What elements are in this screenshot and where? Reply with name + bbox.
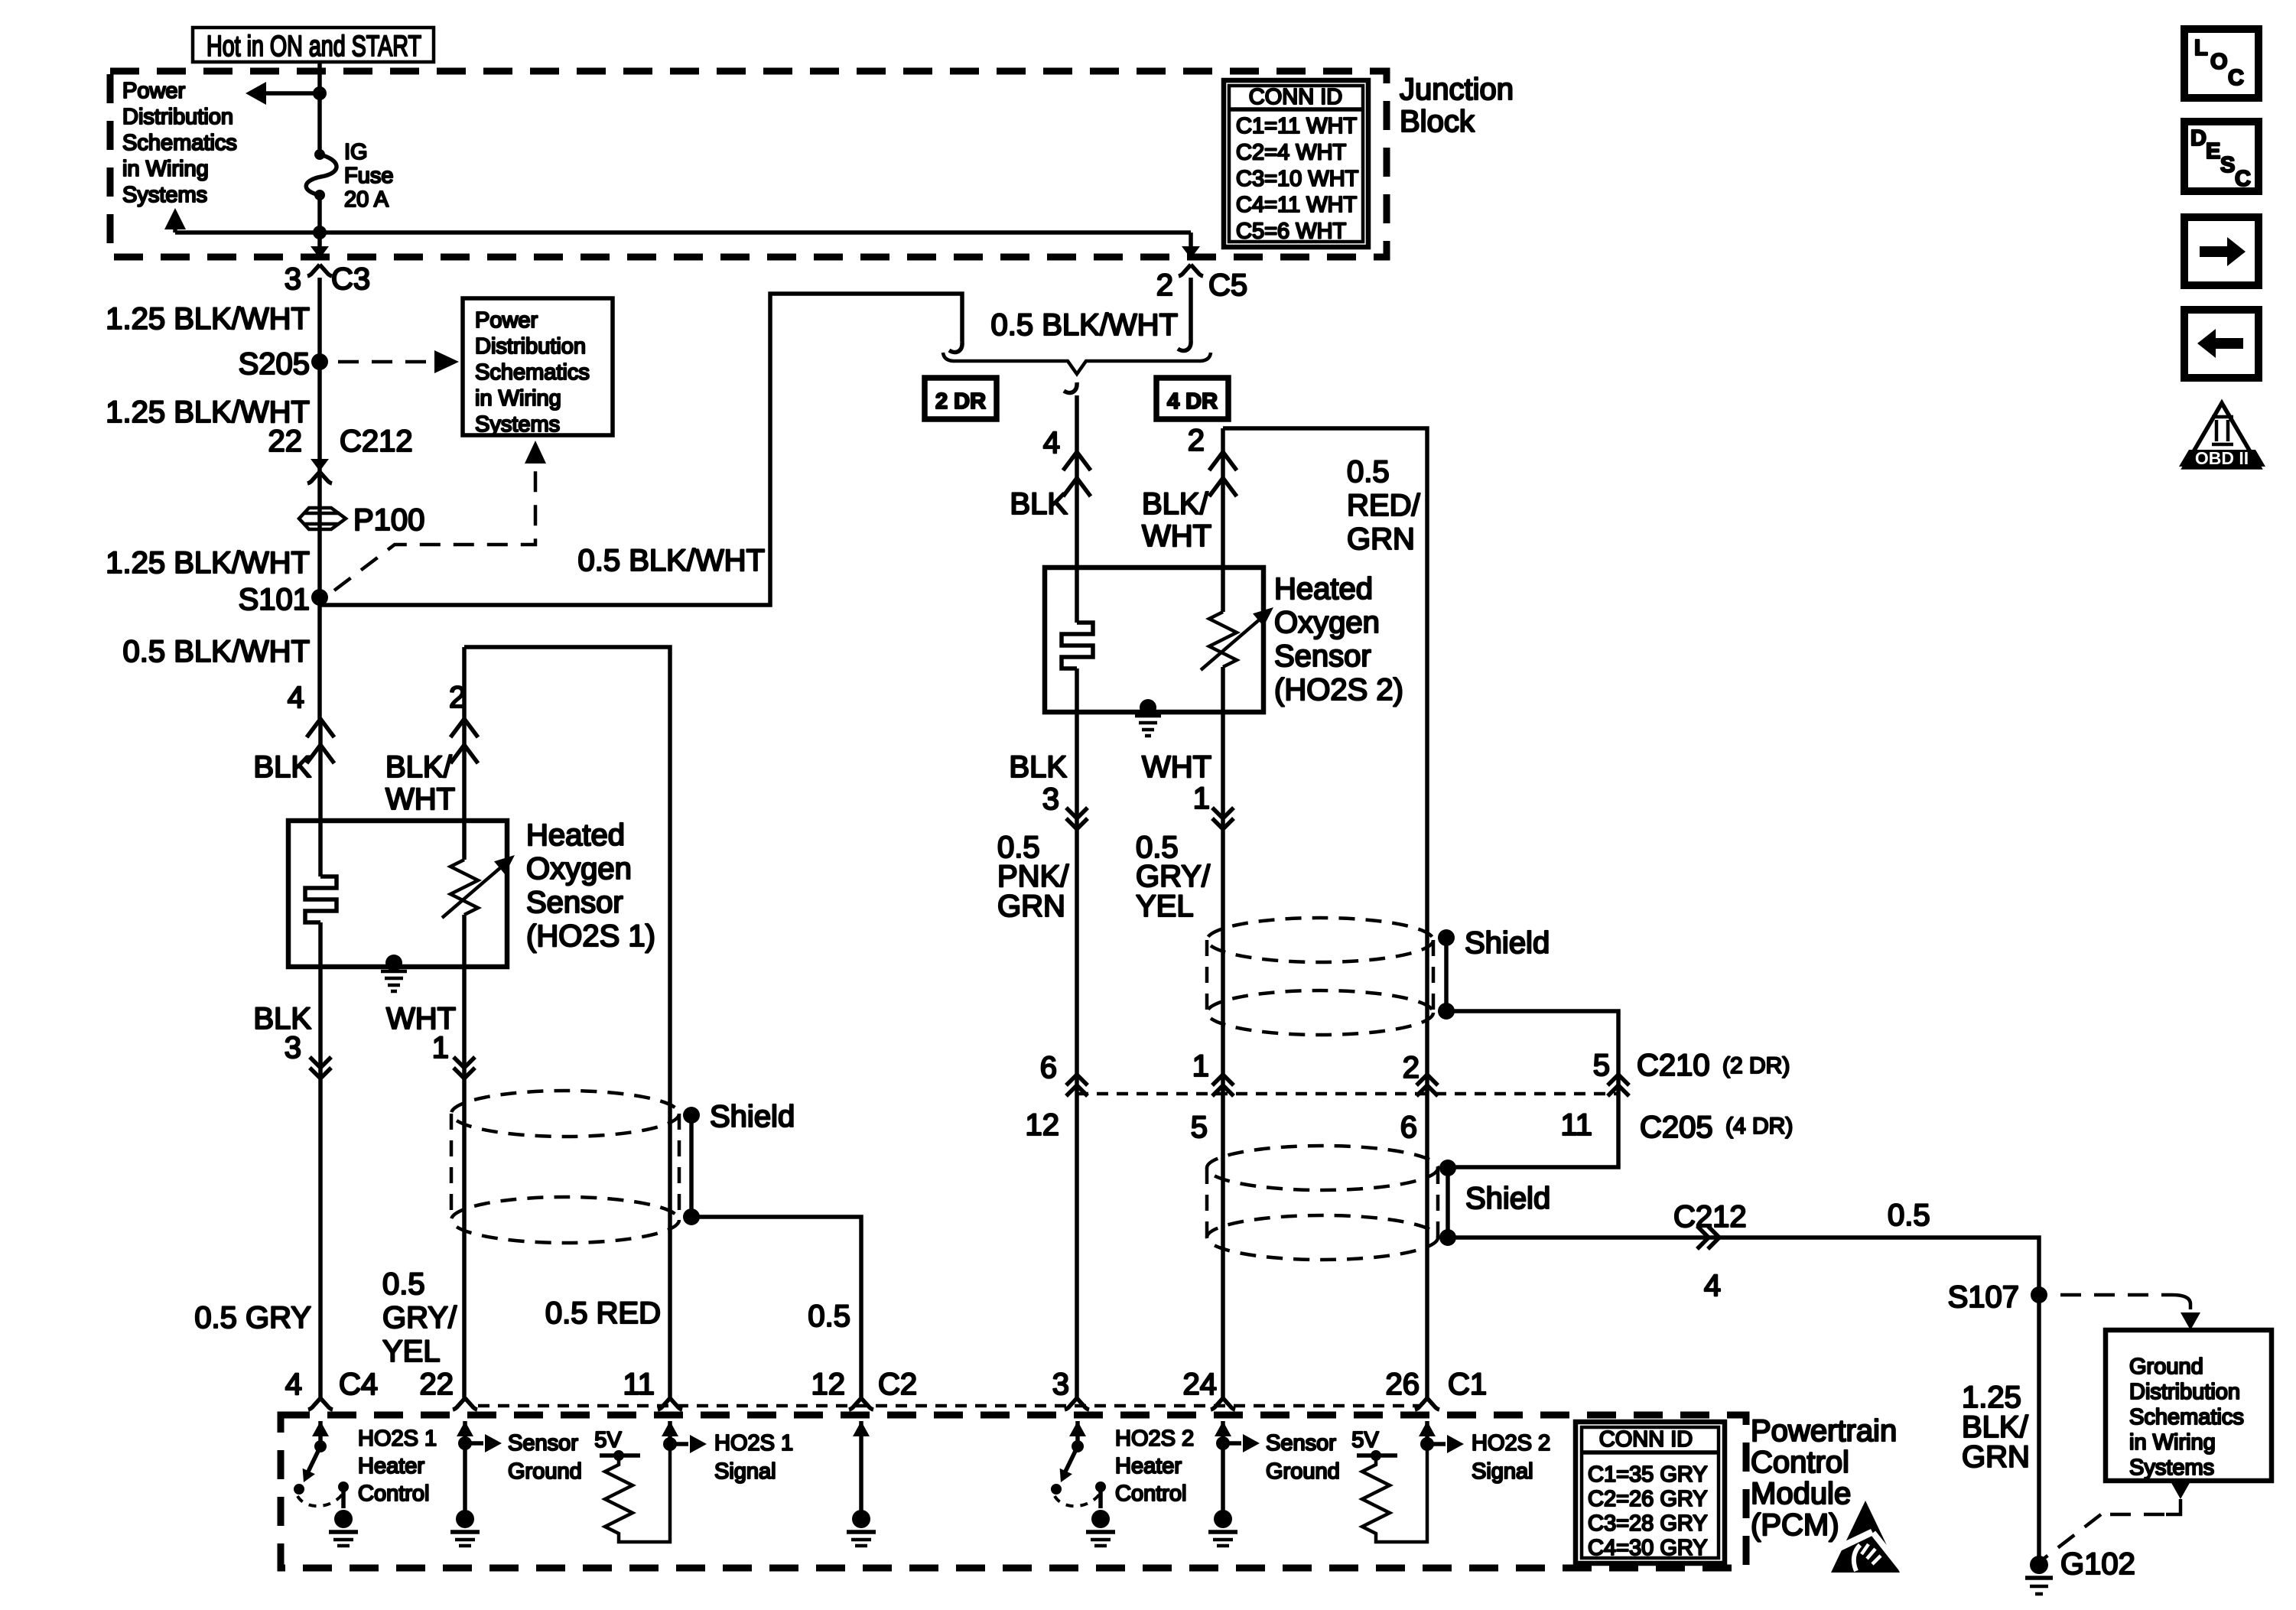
svg-text:Schematics: Schematics (475, 360, 590, 385)
shield drain wire to PCM pin 12 (691, 1217, 861, 1398)
svg-text:Distribution: Distribution (2129, 1380, 2240, 1404)
svg-text:BLK: BLK (253, 1002, 311, 1036)
svg-text:C2: C2 (878, 1368, 917, 1401)
svg-text:Block: Block (1400, 105, 1475, 138)
svg-text:Sensor: Sensor (508, 1431, 578, 1456)
svg-text:L: L (2194, 36, 2208, 60)
svg-text:5: 5 (1593, 1049, 1610, 1082)
PCM connector row dashed line (478, 1404, 1419, 1408)
splice S101 (311, 589, 328, 606)
dashed reference from S107 to ground distribution box (2060, 1293, 2172, 1297)
svg-text:BLK/: BLK/ (1962, 1410, 2029, 1444)
connector fork at PCM pin x=1126 (849, 1398, 873, 1410)
svg-text:Module: Module (1751, 1477, 1851, 1511)
connector fork at PCM pin x=1599 (1211, 1398, 1235, 1410)
svg-text:OBD II: OBD II (2195, 448, 2249, 468)
svg-text:22: 22 (420, 1368, 454, 1401)
ground (sensor case) (1135, 716, 1161, 736)
svg-text:C1=11 WHT: C1=11 WHT (1236, 114, 1357, 138)
svg-text:(HO2S 2): (HO2S 2) (1274, 673, 1403, 707)
svg-text:0.5 GRY: 0.5 GRY (194, 1301, 311, 1335)
shield drain node (bottom) (1438, 1003, 1455, 1020)
svg-text:5V: 5V (1351, 1428, 1379, 1452)
svg-text:Heater: Heater (358, 1454, 424, 1478)
svg-text:C: C (2228, 66, 2244, 90)
variant tag box 2 DR (925, 378, 997, 419)
svg-text:2: 2 (1188, 424, 1205, 457)
svg-text:G102: G102 (2060, 1547, 2135, 1581)
svg-text:HO2S 1: HO2S 1 (358, 1426, 437, 1451)
HO2S 1 heater control switch (PCM) (312, 1421, 329, 1436)
svg-text:4: 4 (1043, 426, 1060, 460)
shield drain through C210/C205 pin 5/11 (1446, 1011, 1618, 1167)
svg-text:C2=4 WHT: C2=4 WHT (1236, 140, 1347, 164)
svg-text:0.5: 0.5 (808, 1299, 850, 1333)
wire end curl (2DR branch) (949, 342, 962, 353)
svg-text:C3=10 WHT: C3=10 WHT (1236, 167, 1359, 191)
svg-text:IG: IG (344, 140, 368, 164)
svg-text:4: 4 (285, 1368, 302, 1401)
svg-text:4: 4 (288, 681, 304, 714)
connector fork at PCM pin x=419 (308, 1398, 333, 1410)
svg-text:Hot in ON and START: Hot in ON and START (207, 31, 421, 63)
svg-text:S: S (2220, 153, 2235, 177)
svg-text:C205: C205 (1640, 1111, 1713, 1144)
svg-text:12: 12 (811, 1368, 846, 1401)
svg-text:BLK/: BLK/ (385, 750, 453, 784)
svg-text:YEL: YEL (382, 1335, 441, 1368)
connector chevrons pin 4 (HO2S2) (1063, 452, 1091, 496)
connector chevrons at x=2116 (1608, 1075, 1629, 1096)
svg-text:WHT: WHT (1142, 519, 1211, 553)
connector fork at PCM pin x=608 (453, 1398, 477, 1410)
svg-text:1: 1 (1193, 782, 1210, 815)
bus wire in junction block (175, 230, 1191, 235)
svg-text:RED/: RED/ (1347, 489, 1420, 522)
arrow left (to power distribution) (246, 82, 266, 105)
svg-text:0.5 BLK/WHT: 0.5 BLK/WHT (577, 544, 765, 577)
svg-text:GRN: GRN (997, 890, 1065, 923)
wire heater to PCM pin 3 (1075, 668, 1079, 1398)
svg-text:1.25 BLK/WHT: 1.25 BLK/WHT (106, 302, 310, 336)
shield drain node (bottom) (1439, 1229, 1456, 1246)
ESD sensitivity symbol (1831, 1501, 1900, 1573)
svg-text:0.5: 0.5 (1888, 1199, 1930, 1232)
svg-text:5: 5 (1191, 1111, 1208, 1144)
wire 0.5 BLK/WHT to HO2S2 heater (1075, 395, 1079, 623)
svg-text:Shield: Shield (710, 1100, 795, 1134)
connector chevrons at x=1408 (1066, 1075, 1088, 1096)
svg-text:Control: Control (358, 1482, 430, 1506)
stub to up arrow (173, 217, 177, 233)
connector fork at PCM pin x=1408 (1065, 1398, 1089, 1410)
connector C5 pin 2 (junction block exit) (1189, 233, 1193, 254)
svg-text:YEL: YEL (1136, 890, 1194, 923)
connector chevrons pin 4 (307, 719, 334, 763)
connector chevrons pin 3 (points down) (310, 1057, 331, 1078)
svg-text:Shield: Shield (1465, 1182, 1550, 1215)
signal loop: HO2S2 pin 2 to 0.5 RED/GRN wire (1223, 428, 1427, 1398)
connector fork at PCM pin x=876 (658, 1398, 682, 1410)
junction block dashed box (110, 71, 1387, 257)
svg-text:0.5 RED: 0.5 RED (545, 1296, 661, 1330)
svg-text:0.5 BLK/WHT: 0.5 BLK/WHT (122, 635, 310, 668)
svg-text:Sensor: Sensor (1274, 639, 1371, 673)
svg-text:Signal: Signal (714, 1459, 776, 1484)
svg-text:Junction: Junction (1400, 73, 1514, 106)
svg-text:1: 1 (1192, 1049, 1209, 1083)
dashed reference wire from S205 (338, 360, 430, 364)
connector chevrons pin 1 (points down) (454, 1057, 475, 1078)
wire 0.5 BLK/WHT from C5 (1189, 278, 1193, 340)
svg-text:C3: C3 (331, 262, 370, 296)
shield drain link (1446, 1168, 1450, 1238)
connector C3 pin 3 (junction block exit) (311, 246, 329, 259)
icon box LOC (2184, 29, 2259, 98)
svg-text:26: 26 (1386, 1368, 1420, 1401)
upper shield around HO2S2 signal pair (1207, 918, 1433, 962)
HO2S2 internal ground node (1140, 699, 1156, 716)
heater element HO2S2 (1062, 623, 1093, 668)
svg-text:P100: P100 (353, 503, 424, 537)
svg-text:S101: S101 (239, 583, 310, 616)
arrow to power distribution box (434, 350, 459, 373)
svg-text:E: E (2206, 139, 2220, 164)
wire pin4 into heater (318, 719, 323, 877)
svg-text:2: 2 (1156, 268, 1173, 302)
svg-text:Control: Control (1751, 1446, 1849, 1479)
svg-text:3: 3 (1042, 782, 1059, 816)
svg-text:BLK: BLK (1010, 487, 1068, 521)
connector chevrons pin 1 (points down) (1212, 808, 1234, 829)
svg-text:Systems: Systems (2129, 1456, 2214, 1480)
svg-text:PNK/: PNK/ (997, 860, 1069, 893)
svg-text:Oxygen: Oxygen (1274, 606, 1380, 639)
ground (sensor case) (381, 971, 407, 991)
svg-text:6: 6 (1400, 1111, 1417, 1144)
svg-text:Fuse: Fuse (344, 164, 393, 188)
svg-text:Sensor: Sensor (526, 886, 623, 919)
svg-text:3: 3 (285, 262, 301, 296)
shield drain node (top) (1439, 1160, 1456, 1176)
svg-text:Control: Control (1115, 1482, 1187, 1506)
wire sense element to shield region / PCM pin 22 (462, 915, 467, 1398)
svg-text:Distribution: Distribution (475, 334, 586, 359)
svg-text:HO2S 2: HO2S 2 (1115, 1426, 1194, 1451)
svg-text:HO2S 1: HO2S 1 (714, 1431, 793, 1456)
svg-text:GRN: GRN (1962, 1440, 2030, 1474)
variant tag box 4 DR (1156, 378, 1228, 419)
shield around HO2S1 signal pair (451, 1091, 679, 1137)
svg-text:Heated: Heated (1274, 572, 1373, 606)
svg-text:Power: Power (122, 79, 186, 103)
svg-text:0.5: 0.5 (382, 1267, 425, 1301)
svg-text:C1=35 GRY: C1=35 GRY (1588, 1462, 1708, 1487)
svg-text:6: 6 (1040, 1051, 1057, 1085)
svg-text:C: C (2235, 167, 2251, 191)
svg-text:Heater: Heater (1115, 1454, 1182, 1478)
svg-text:GRY/: GRY/ (1136, 860, 1211, 893)
connector row dashed line C205 (1077, 1092, 1618, 1096)
shield drain node (bottom) (683, 1208, 700, 1225)
svg-text:1.25: 1.25 (1962, 1381, 2021, 1414)
svg-text:C5=6 WHT: C5=6 WHT (1236, 220, 1347, 244)
wire from Hot feed (317, 62, 322, 153)
svg-text:BLK: BLK (253, 750, 311, 784)
svg-text:1: 1 (432, 1031, 449, 1065)
svg-text:11: 11 (623, 1368, 655, 1401)
svg-text:Ground: Ground (1266, 1459, 1340, 1484)
svg-text:Heated: Heated (526, 818, 625, 852)
svg-text:Shield: Shield (1465, 926, 1550, 960)
svg-text:Oxygen: Oxygen (526, 852, 632, 886)
fuse IG Fuse 20 A (314, 149, 325, 160)
svg-text:1.25 BLK/WHT: 1.25 BLK/WHT (106, 546, 310, 580)
connector chevrons pin 2 (HO2S2) (1209, 452, 1237, 496)
svg-text:20 A: 20 A (344, 187, 389, 212)
label box: Hot in ON and START (193, 28, 434, 62)
icon box arrow right (2184, 217, 2259, 285)
svg-text:Schematics: Schematics (122, 131, 237, 155)
svg-text:24: 24 (1183, 1368, 1218, 1401)
lower shield around HO2S2 signal pair (1207, 1146, 1438, 1190)
svg-text:(HO2S 1): (HO2S 1) (526, 919, 655, 953)
wire heater to PCM pin 4 (318, 922, 323, 1398)
arrow up (to power distribution) (164, 208, 186, 229)
svg-text:3: 3 (1052, 1368, 1069, 1401)
HO2S1 internal ground node (385, 955, 402, 971)
svg-text:3: 3 (285, 1031, 301, 1065)
wire pin2 into sense element (462, 647, 467, 860)
connector chevrons at x=1599 (1212, 1075, 1234, 1096)
svg-text:CONN ID: CONN ID (1249, 85, 1342, 109)
svg-text:(PCM): (PCM) (1751, 1508, 1839, 1542)
svg-text:0.5 BLK/WHT: 0.5 BLK/WHT (990, 308, 1178, 342)
svg-text:in Wiring: in Wiring (2129, 1430, 2216, 1455)
shield drain wire to S107 and G102 (1448, 1238, 2039, 1565)
svg-text:C4: C4 (339, 1368, 378, 1401)
svg-text:Powertrain: Powertrain (1751, 1414, 1897, 1448)
svg-text:Distribution: Distribution (122, 105, 233, 129)
in-line connector C212 pin 4 (1697, 1226, 1719, 1249)
svg-text:in Wiring: in Wiring (122, 157, 209, 181)
wire pin2 into sense element (1221, 428, 1225, 612)
svg-text:11: 11 (1560, 1108, 1592, 1142)
svg-text:BLK/: BLK/ (1142, 487, 1209, 521)
svg-text:C4=30 GRY: C4=30 GRY (1588, 1536, 1708, 1560)
svg-text:C2=26 GRY: C2=26 GRY (1588, 1487, 1708, 1511)
svg-text:5V: 5V (594, 1428, 622, 1452)
signal loop: HO2S1 pin 2 to 0.5 RED wire (464, 647, 670, 1398)
svg-text:C212: C212 (340, 424, 413, 458)
reference box: Ground Distribution Schematics in Wiring Systems (2106, 1330, 2272, 1481)
svg-text:C212: C212 (1673, 1200, 1747, 1234)
HO2S 2 heater control switch (PCM) (1069, 1421, 1086, 1436)
shield drain link (1444, 938, 1449, 1011)
sensing element HO2S2 (variable resistor) (1209, 612, 1237, 667)
wire fuse to bus (317, 195, 322, 246)
wire end curl (C5 branch) (1178, 340, 1191, 351)
sensor ground pin 24 (PCM) (1215, 1421, 1231, 1436)
svg-text:BLK: BLK (1009, 750, 1067, 784)
shield drain node (top) (683, 1107, 700, 1124)
svg-text:C3=28 GRY: C3=28 GRY (1588, 1511, 1708, 1536)
CONN ID table (junction block) (1224, 80, 1368, 247)
svg-text:Systems: Systems (122, 183, 207, 207)
svg-text:CONN ID: CONN ID (1599, 1427, 1693, 1452)
wire end curl (HO2S2 heater feed) (1064, 382, 1077, 393)
svg-text:Power: Power (475, 308, 538, 333)
reference box: Power Distribution Schematics in Wiring Systems (463, 298, 613, 435)
svg-text:GRN: GRN (1347, 522, 1415, 556)
shield drain node (top) (1438, 929, 1455, 946)
svg-text:0.5: 0.5 (1347, 455, 1390, 489)
splice brace joining 2DR and 4DR feeds (943, 353, 1211, 374)
svg-text:Ground: Ground (2129, 1355, 2203, 1379)
pass-through grommet P100 (299, 508, 346, 529)
ground G102 (2030, 1556, 2048, 1574)
svg-text:WHT: WHT (385, 782, 455, 816)
connector chevrons pin 3 (points down) (1066, 808, 1088, 829)
svg-text:Systems: Systems (475, 412, 560, 437)
shield drain link (689, 1115, 694, 1217)
svg-text:Sensor: Sensor (1266, 1431, 1336, 1456)
connector fork at PCM pin x=1866 (1415, 1398, 1439, 1410)
svg-text:Ground: Ground (508, 1459, 582, 1484)
svg-text:WHT: WHT (1142, 750, 1211, 784)
svg-text:22: 22 (268, 424, 303, 458)
svg-text:in Wiring: in Wiring (475, 386, 561, 411)
svg-text:D: D (2190, 126, 2207, 151)
heated oxygen sensor HO2S1 box (288, 821, 507, 967)
svg-text:S205: S205 (239, 347, 310, 381)
icon OBD II triangle (2184, 403, 2259, 467)
svg-text:2 DR: 2 DR (935, 389, 986, 414)
svg-text:C1: C1 (1448, 1368, 1487, 1401)
wire to left arrow (262, 91, 320, 96)
icon box DESC (2184, 122, 2259, 191)
svg-text:C4=11 WHT: C4=11 WHT (1236, 193, 1357, 217)
svg-text:2: 2 (1403, 1051, 1420, 1085)
splice S205 (311, 353, 328, 370)
svg-text:(4 DR): (4 DR) (1725, 1114, 1793, 1139)
splice S107 (2031, 1286, 2047, 1303)
svg-text:Signal: Signal (1472, 1459, 1533, 1484)
heater element HO2S1 (305, 877, 337, 922)
shield drain ground pin 12 (PCM) (853, 1421, 870, 1436)
svg-text:(2 DR): (2 DR) (1722, 1053, 1790, 1078)
svg-text:C5: C5 (1208, 268, 1247, 302)
junction node at bus (313, 226, 327, 239)
svg-text:S107: S107 (1948, 1280, 2019, 1314)
sensor ground pin 22 (PCM) (457, 1421, 473, 1436)
powertrain control module PCM dashed box (281, 1415, 1746, 1568)
connector chevrons at x=1866 (1416, 1075, 1438, 1096)
HO2S1 branch: wire from S101 to 2DR splice brace (320, 294, 962, 605)
svg-text:12: 12 (1026, 1108, 1060, 1142)
dashed reference from S101 to power distribution box (334, 457, 535, 590)
svg-text:4 DR: 4 DR (1167, 389, 1218, 414)
svg-text:HO2S 2: HO2S 2 (1472, 1431, 1550, 1456)
icon box arrow left (2184, 310, 2259, 378)
heated oxygen sensor HO2S2 box (1045, 568, 1263, 712)
dashed reference from ground distribution box to G102 (2171, 1482, 2190, 1499)
connector chevrons pin 2 (450, 719, 478, 763)
wire sense element to PCM pin 24 (1221, 667, 1225, 1398)
CONN ID table (PCM) (1576, 1422, 1725, 1563)
svg-text:GRY/: GRY/ (382, 1301, 457, 1335)
svg-text:Schematics: Schematics (2129, 1405, 2244, 1429)
svg-text:C210: C210 (1637, 1049, 1710, 1082)
junction node in block (313, 86, 327, 100)
sensing element HO2S1 (variable resistor) (450, 860, 478, 915)
svg-text:4: 4 (1704, 1269, 1721, 1303)
svg-text:O: O (2210, 50, 2228, 74)
